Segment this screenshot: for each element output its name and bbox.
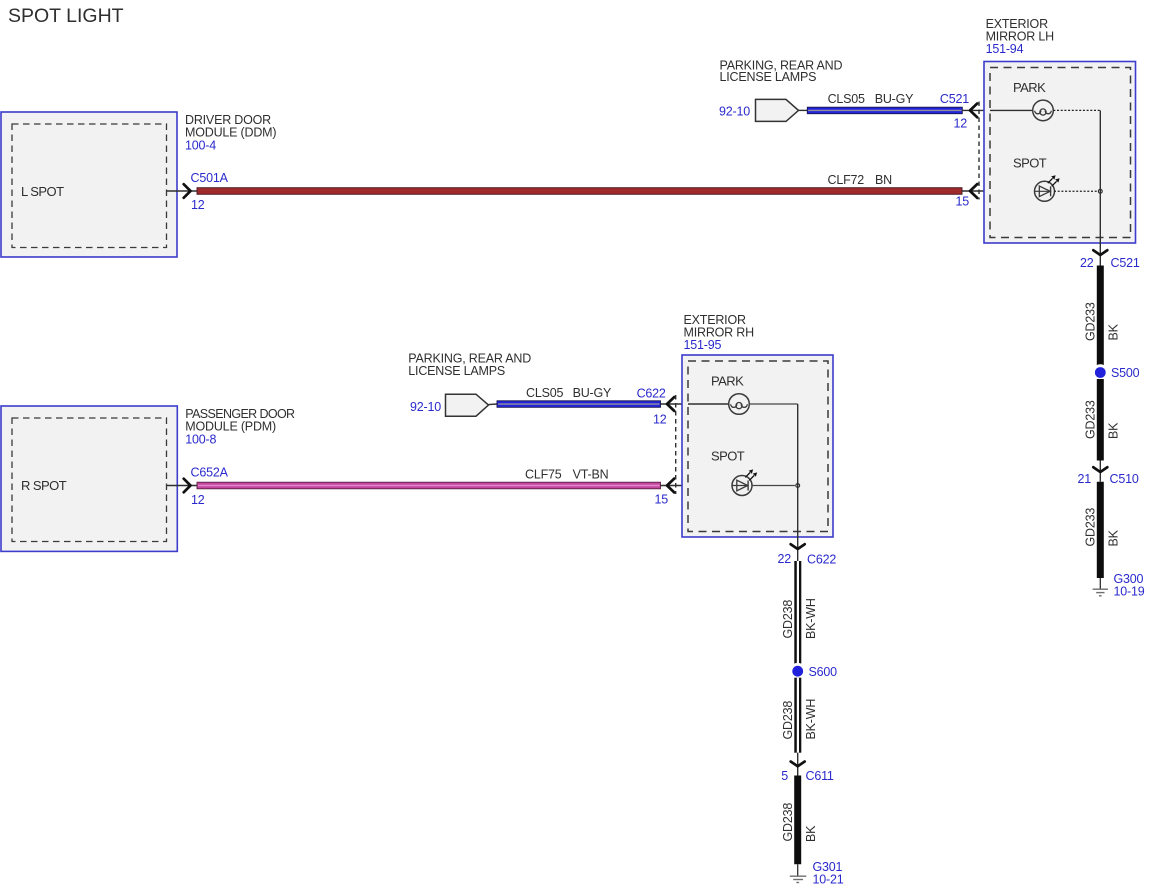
arrow C652A: [184, 479, 191, 493]
svg-text:SPOT: SPOT: [1013, 156, 1047, 171]
svg-text:12: 12: [953, 117, 967, 131]
svg-text:92-10: 92-10: [410, 400, 441, 414]
svg-text:10-19: 10-19: [1114, 585, 1145, 599]
svg-text:21: 21: [1077, 472, 1091, 486]
svg-text:L SPOT: L SPOT: [21, 184, 64, 199]
svg-text:15: 15: [654, 493, 668, 507]
wire stub into mirror LH pin 15: [962, 190, 1034, 192]
svg-text:GD238: GD238: [781, 803, 795, 842]
wire CLS05 BU-GY (RH): [497, 401, 661, 408]
wire dotted SPOT RH to node: [752, 485, 795, 487]
svg-text:GD233: GD233: [1084, 400, 1098, 439]
svg-text:92-10: 92-10: [719, 104, 750, 118]
wire stub into mirror LH pin 12: [962, 109, 1033, 111]
label PASSENGER DOOR MODULE (PDM) 100-8: [185, 407, 295, 447]
splice S500: [1092, 364, 1109, 381]
svg-text:151-94: 151-94: [986, 42, 1024, 56]
wire dotted PARK LH to corner: [1053, 109, 1100, 111]
wire GD238 BK-WH segment 1: [794, 561, 801, 664]
label G300 10-19: [1114, 572, 1145, 599]
ground G300: [1093, 578, 1108, 596]
label G301 10-21: [813, 860, 844, 886]
arrow down into C521 pin 22: [1093, 250, 1107, 255]
svg-text:PARK: PARK: [711, 374, 744, 389]
wire GD238 BK-WH segment 2: [794, 678, 801, 753]
arrow down into C611 pin 5: [791, 762, 805, 767]
connector C622 dashed link: [675, 395, 677, 494]
svg-text:C510: C510: [1110, 472, 1139, 486]
svg-text:5: 5: [781, 769, 788, 783]
svg-text:S600: S600: [809, 665, 838, 679]
svg-text:100-8: 100-8: [185, 433, 216, 447]
svg-text:C611: C611: [806, 769, 834, 783]
svg-text:LICENSE LAMPS: LICENSE LAMPS: [408, 364, 505, 378]
svg-text:C652A: C652A: [191, 466, 229, 480]
svg-text:BK: BK: [1107, 422, 1121, 439]
module DDM box: [1, 112, 177, 257]
arrow down into C510 pin 21: [1093, 467, 1107, 472]
wire CLF75 VT-BN pink: [197, 482, 661, 489]
svg-text:SPOT: SPOT: [711, 449, 745, 464]
label PARKING REAR AND LICENSE LAMPS (RH): [408, 352, 531, 379]
svg-text:BK: BK: [1107, 323, 1121, 340]
module EXTERIOR MIRROR LH box: [984, 62, 1136, 244]
arrow down into C622 pin 22: [791, 544, 805, 549]
arrow into C622 pin 12: [667, 397, 674, 411]
svg-text:CLF72BN: CLF72BN: [828, 173, 893, 187]
connector C521 dashed link: [978, 102, 980, 200]
lamp PARK RH: [688, 394, 749, 415]
label PARKING REAR AND LICENSE LAMPS (LH): [720, 59, 843, 84]
node open circle LH: [1098, 189, 1102, 193]
svg-text:R SPOT: R SPOT: [21, 478, 67, 493]
svg-text:C622: C622: [637, 386, 666, 400]
arrow into C521 pin 15: [970, 184, 977, 198]
wire stub DDM output: [167, 190, 198, 192]
svg-text:C501A: C501A: [191, 171, 229, 185]
svg-text:GD238: GD238: [781, 701, 795, 740]
svg-text:BK-WH: BK-WH: [804, 598, 818, 639]
splice S600: [789, 663, 806, 680]
arrow C501A: [184, 184, 191, 198]
lamp PARK LH: [990, 100, 1053, 121]
LED SPOT RH: [732, 469, 758, 495]
svg-text:151-95: 151-95: [684, 338, 722, 352]
wire vertical inside mirror RH: [797, 404, 799, 561]
arrow into C622 pin 15: [667, 479, 674, 493]
svg-text:C521: C521: [1111, 256, 1140, 270]
wire vertical inside mirror LH: [1099, 110, 1101, 265]
wire dotted PARK RH to corner: [749, 403, 797, 405]
wire stub into mirror RH pin 15: [661, 485, 733, 487]
ground G301: [790, 864, 807, 882]
svg-text:GD233: GD233: [1084, 508, 1098, 547]
wire stub C510: [1099, 461, 1101, 482]
svg-text:BK: BK: [804, 825, 818, 842]
svg-text:22: 22: [1080, 256, 1094, 270]
module PDM box: [1, 406, 177, 551]
svg-text:10-21: 10-21: [813, 872, 844, 886]
svg-text:GD233: GD233: [1084, 302, 1098, 341]
wire GD238 BK segment 3: [794, 776, 801, 865]
wire CLF72 BN brown: [197, 188, 962, 195]
wire stub PDM output: [167, 485, 198, 487]
label EXTERIOR MIRROR RH 151-95: [684, 313, 755, 352]
wire CLS05 BU-GY (LH): [807, 107, 962, 114]
svg-text:BK-WH: BK-WH: [804, 699, 818, 740]
label EXTERIOR MIRROR LH 151-94: [986, 17, 1055, 56]
svg-text:MODULE (PDM): MODULE (PDM): [185, 420, 276, 434]
node open circle RH: [796, 484, 800, 488]
label DRIVER DOOR MODULE (DDM) 100-4: [185, 113, 276, 153]
wire GD233 BK segment 1: [1097, 266, 1104, 367]
svg-text:C622: C622: [807, 553, 836, 567]
svg-text:12: 12: [191, 198, 205, 212]
module EXTERIOR MIRROR RH box: [682, 355, 833, 537]
svg-text:12: 12: [653, 413, 667, 427]
off-page connector 92-10 (LH): [719, 99, 807, 121]
svg-text:S500: S500: [1111, 366, 1140, 380]
wire dotted SPOT LH to node: [1054, 190, 1098, 192]
svg-text:15: 15: [955, 195, 969, 209]
wire stub into mirror RH pin 12: [661, 403, 729, 405]
svg-text:SPOT LIGHT: SPOT LIGHT: [8, 5, 124, 27]
svg-text:GD238: GD238: [781, 600, 795, 639]
svg-text:22: 22: [777, 552, 791, 566]
svg-text:BK: BK: [1107, 529, 1121, 546]
svg-text:C521: C521: [940, 92, 969, 106]
off-page connector 92-10 (RH): [410, 394, 497, 416]
svg-text:PARK: PARK: [1013, 80, 1046, 95]
LED SPOT LH: [1034, 175, 1060, 201]
svg-text:LICENSE LAMPS: LICENSE LAMPS: [720, 70, 817, 84]
svg-text:100-4: 100-4: [185, 138, 216, 152]
wire stub C611: [797, 753, 799, 776]
svg-text:12: 12: [191, 493, 205, 507]
arrow into C521 pin 12: [970, 104, 977, 118]
wire GD233 BK segment 2: [1097, 379, 1104, 461]
wire GD233 BK segment 3: [1097, 482, 1104, 578]
